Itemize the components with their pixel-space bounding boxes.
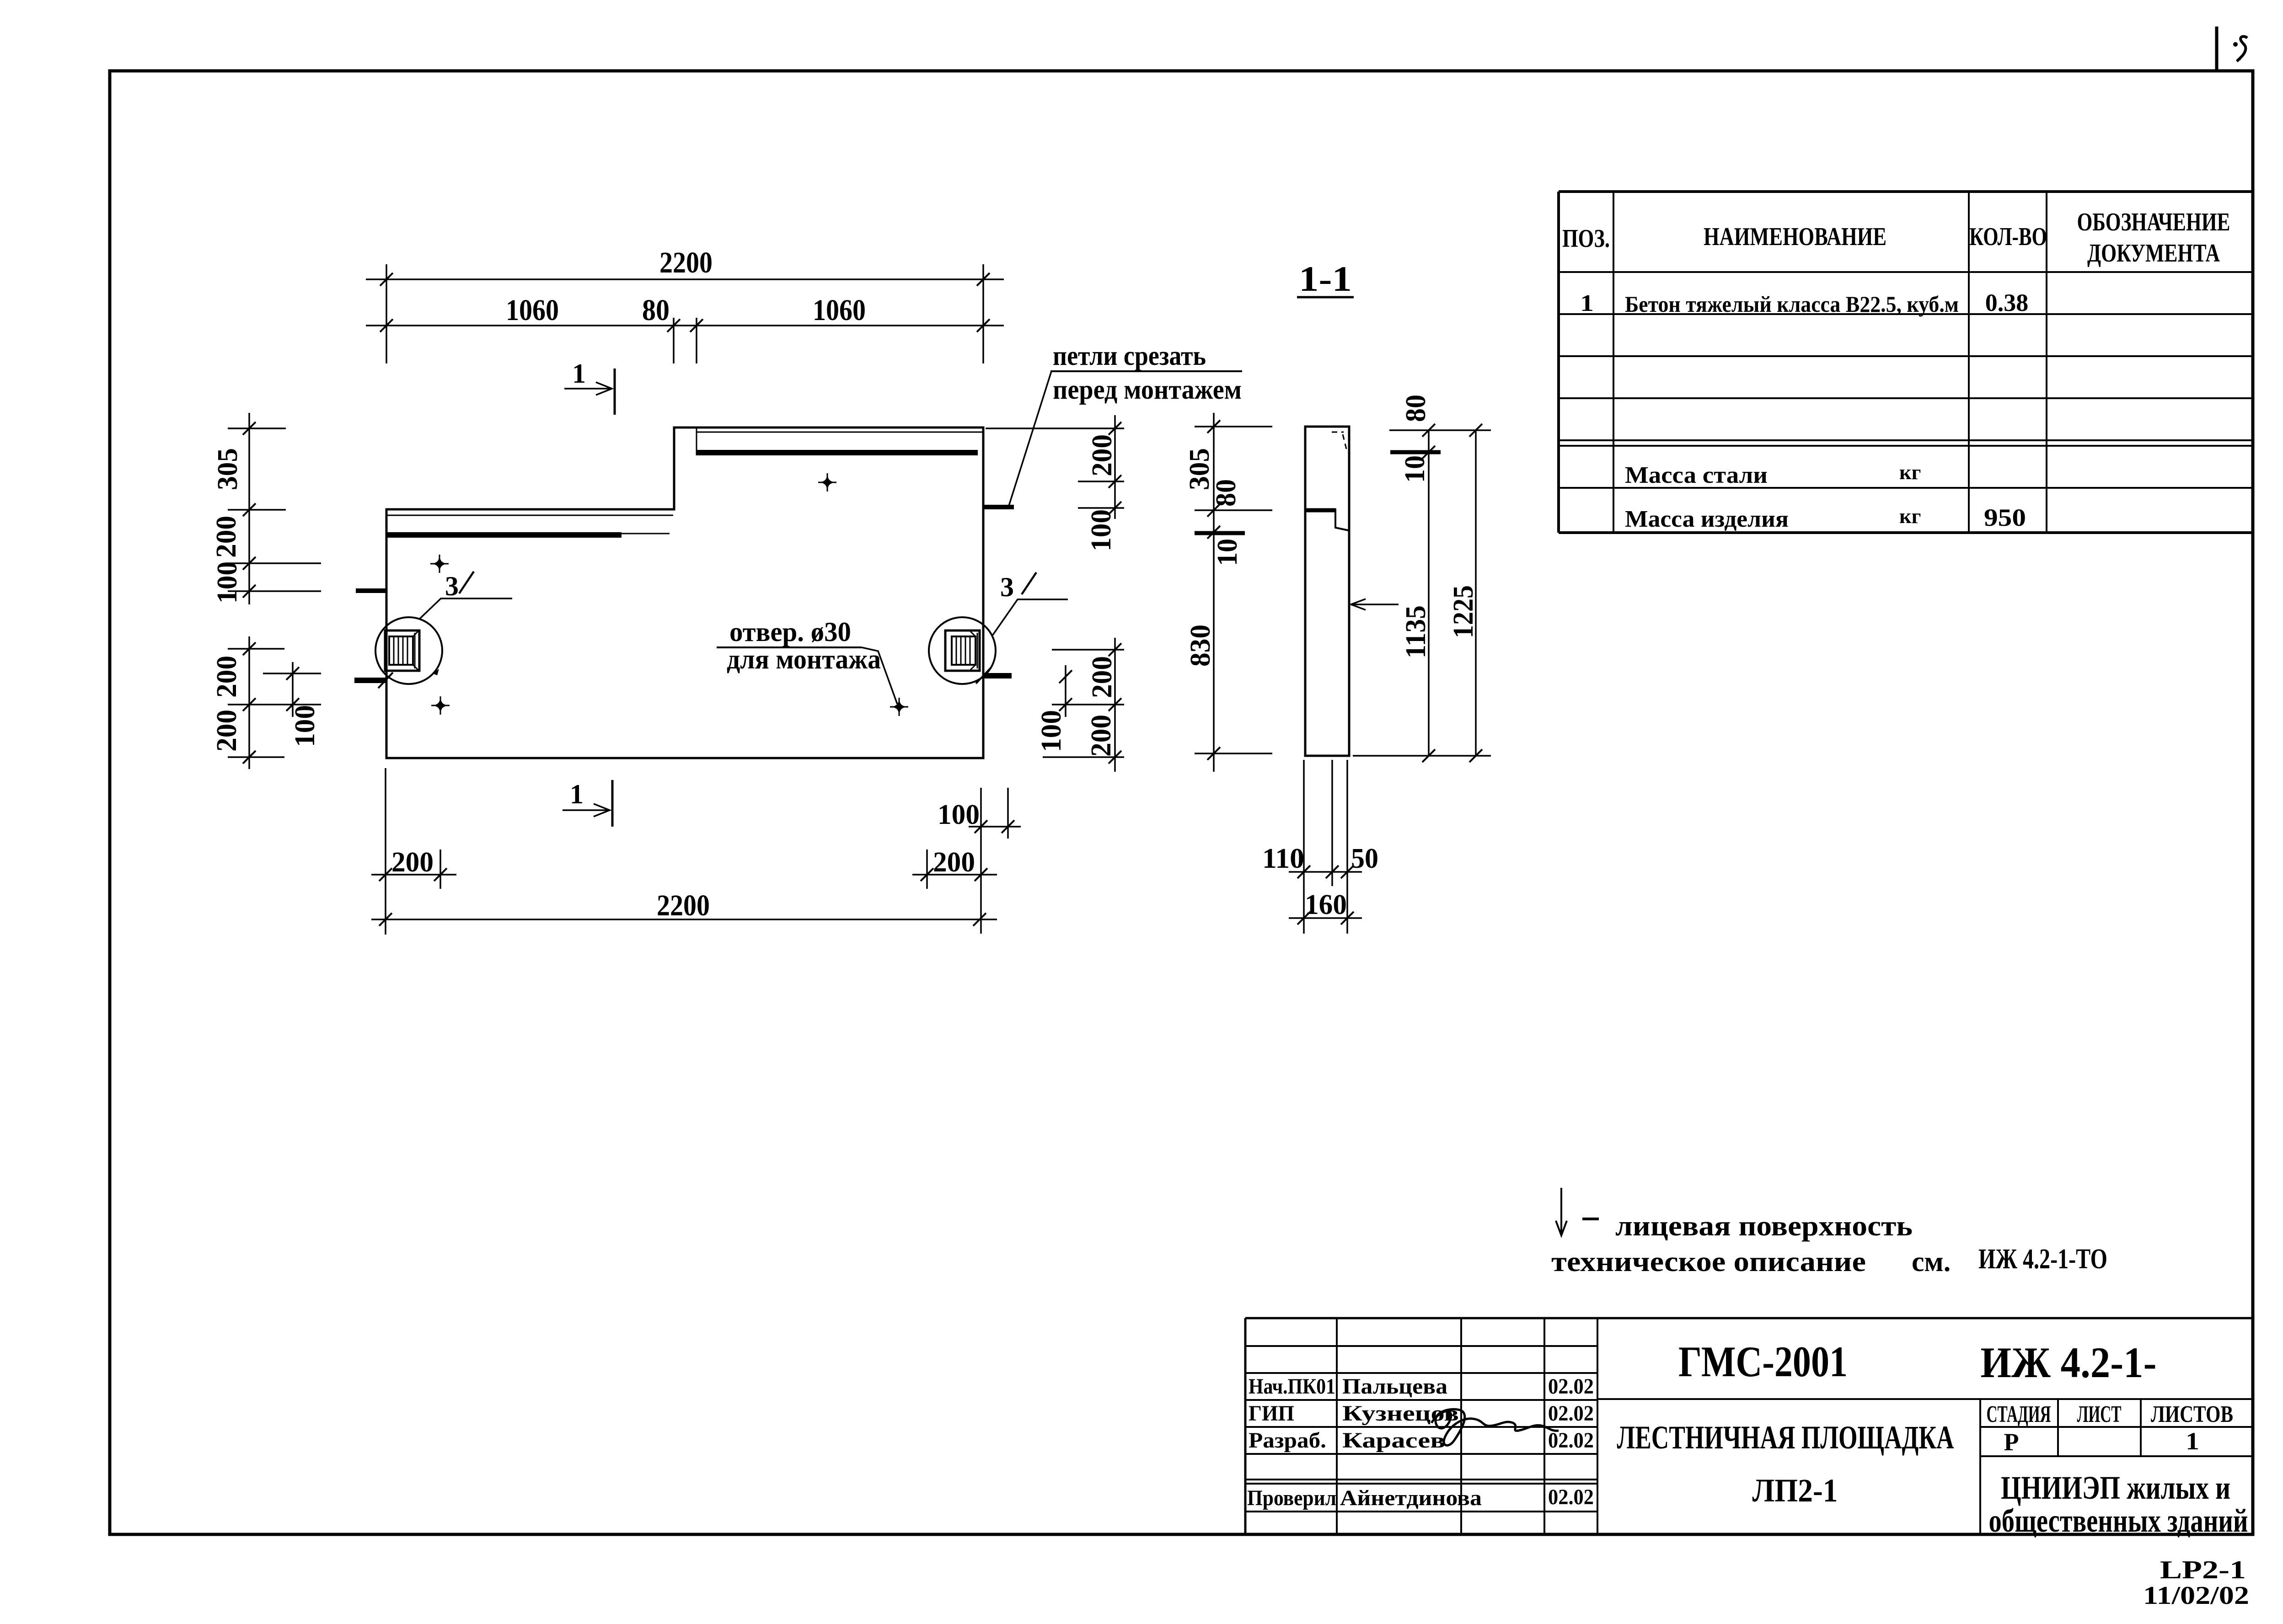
dim 1225 line [1475, 430, 1477, 756]
note hole d30: leader [862, 647, 897, 704]
svg-text:1: 1 [1580, 290, 1594, 316]
svg-text:ЛЕСТНИЧНАЯ ПЛОЩАДКА: ЛЕСТНИЧНАЯ ПЛОЩАДКА [1617, 1419, 1954, 1456]
svg-text:ИЖ 4.2-1-: ИЖ 4.2-1- [1981, 1338, 2157, 1387]
left sub-dim 100: line [292, 662, 294, 717]
plan left part inner thin line [387, 515, 673, 516]
svg-text:3: 3 [445, 571, 459, 601]
callout 3 right: leader [992, 599, 1068, 636]
svg-text:200: 200 [1087, 434, 1118, 476]
svg-text:200: 200 [1087, 656, 1118, 698]
section bottom extensions [1303, 760, 1305, 934]
svg-text:Пальцева: Пальцева [1342, 1374, 1447, 1399]
section left chain dim line [1213, 413, 1215, 772]
plan left part step nosing thick band [387, 532, 622, 538]
svg-text:1: 1 [2186, 1427, 2199, 1455]
plan right part nosing end cap [696, 428, 697, 455]
bottom 200 right extension [926, 849, 928, 889]
svg-text:1060: 1060 [506, 294, 559, 327]
svg-text:50: 50 [1351, 843, 1378, 874]
section mark 1 top: bar [614, 369, 616, 415]
svg-text:для монтажа: для монтажа [727, 644, 881, 674]
face surface legend arrow [1556, 1188, 1567, 1235]
svg-text:ГМС-2001: ГМС-2001 [1678, 1337, 1848, 1386]
callout 3 right: slash [1022, 572, 1036, 594]
svg-text:1-1: 1-1 [1299, 259, 1352, 299]
svg-text:LP2-1: LP2-1 [2160, 1556, 2246, 1584]
parts table grid [1559, 192, 2253, 533]
bottom dim 100: line [969, 826, 1021, 828]
svg-text:200: 200 [391, 847, 434, 878]
plan right part step nosing thick band [697, 450, 978, 455]
section left chain extensions [1195, 426, 1272, 427]
section 10 thick dash right [1390, 450, 1441, 454]
svg-text:петли срезать: петли срезать [1053, 341, 1206, 371]
svg-text:80: 80 [1211, 479, 1242, 507]
svg-text:КОЛ-ВО: КОЛ-ВО [1969, 223, 2047, 251]
bottom dim 200 right: line [912, 874, 997, 876]
right sub-dim 100: line [1065, 665, 1066, 717]
svg-text:950: 950 [1984, 504, 2026, 531]
loop dash upper-left [356, 588, 386, 593]
svg-text:кг: кг [1899, 504, 1921, 528]
dim 2200 top: line [366, 278, 1004, 280]
section internal thick step line [1306, 508, 1335, 513]
svg-text:80: 80 [1400, 395, 1431, 422]
loop dash upper-right [983, 505, 1014, 509]
bottom dim 200 left: line [371, 874, 456, 876]
svg-text:Разраб.: Разраб. [1249, 1428, 1326, 1453]
bottom 200 left extensions [385, 768, 386, 935]
svg-text:ПОЗ.: ПОЗ. [1562, 224, 1610, 253]
svg-text:110: 110 [1262, 843, 1304, 874]
small arrowhead at left circle edge [433, 669, 439, 675]
handwritten sheet number 5 [2233, 42, 2238, 47]
svg-text:200: 200 [211, 710, 242, 752]
svg-text:830: 830 [1185, 625, 1216, 667]
svg-text:ГИП: ГИП [1249, 1401, 1294, 1426]
signature squiggle Кузнецов [1431, 1409, 1559, 1445]
bottom dim 100 extensions [980, 788, 982, 934]
svg-text:02.02: 02.02 [1548, 1374, 1594, 1399]
dim ticks plan [243, 273, 1121, 926]
svg-text:СТАДИЯ: СТАДИЯ [1987, 1401, 2051, 1427]
section dim 160 line [1289, 917, 1362, 919]
svg-text:200: 200 [1086, 715, 1117, 757]
hole marker upper-right [818, 473, 836, 491]
svg-text:11/02/02: 11/02/02 [2143, 1581, 2249, 1610]
right lifting loop hatched square [945, 630, 980, 671]
right chain extensions [986, 427, 1124, 429]
dim 1135 line [1428, 430, 1430, 756]
hole marker lower-left [431, 696, 450, 715]
svg-text:10: 10 [1212, 539, 1243, 566]
svg-text:ЛИСТ: ЛИСТ [2077, 1401, 2122, 1427]
section mark 1 bottom: arrow [563, 804, 610, 817]
svg-text:Айнетдинова: Айнетдинова [1340, 1486, 1482, 1510]
left chain extensions [228, 427, 286, 429]
svg-text:100: 100 [289, 705, 321, 747]
svg-text:ДОКУМЕНТА: ДОКУМЕНТА [2087, 239, 2220, 267]
svg-text:02.02: 02.02 [1548, 1401, 1594, 1426]
section step notch [1335, 508, 1348, 530]
section outline [1305, 427, 1349, 756]
right chain: dim line lower [1114, 638, 1116, 772]
svg-text:Масса стали: Масса стали [1625, 462, 1768, 488]
svg-text:ЛП2-1: ЛП2-1 [1752, 1472, 1838, 1509]
bottom dim 2200: line [371, 919, 997, 920]
note loops: leader line [1009, 371, 1051, 506]
callout 3 left: slash [459, 572, 474, 593]
svg-text:НАИМЕНОВАНИЕ: НАИМЕНОВАНИЕ [1704, 223, 1886, 251]
svg-text:10: 10 [1399, 455, 1431, 483]
svg-text:200: 200 [211, 656, 242, 698]
svg-text:100: 100 [938, 799, 980, 830]
dim 80: extension left [673, 318, 675, 363]
dim 2200 top: extension left [386, 264, 387, 363]
svg-text:100: 100 [1036, 710, 1067, 752]
svg-text:ЛИСТОВ: ЛИСТОВ [2151, 1401, 2233, 1427]
svg-text:200: 200 [933, 847, 975, 878]
title block grid [1245, 1318, 2253, 1534]
svg-text:Масса изделия: Масса изделия [1625, 506, 1789, 532]
plan left part nosing thin continuation [622, 533, 670, 534]
svg-text:305: 305 [212, 448, 243, 490]
section 1-1 title underline [1297, 296, 1354, 299]
svg-text:Нач.ПК01: Нач.ПК01 [1249, 1374, 1335, 1399]
svg-text:1135: 1135 [1400, 605, 1431, 658]
section right top extension [1389, 429, 1491, 431]
svg-text:техническое описание: техническое описание [1551, 1246, 1866, 1277]
loop dash lower-left [354, 678, 386, 683]
svg-text:отвер. ø30: отвер. ø30 [729, 617, 851, 647]
svg-text:ЦНИИЭП жилых и: ЦНИИЭП жилых и [2001, 1469, 2230, 1506]
section hidden loop dashes [1332, 432, 1344, 433]
svg-text:02.02: 02.02 [1548, 1428, 1594, 1453]
svg-text:100: 100 [1086, 509, 1117, 551]
left chain: dim line upper [248, 413, 250, 604]
dim 2200 top: extension right [982, 264, 984, 363]
face surface legend dash [1582, 1218, 1599, 1220]
note hole d30: underline [717, 646, 862, 648]
svg-text:Проверил: Проверил [1247, 1486, 1336, 1510]
left chain: dim line lower [248, 636, 250, 769]
section dim 110-50 line [1289, 871, 1362, 873]
svg-text:100: 100 [212, 561, 243, 604]
svg-text:Бетон тяжелый класса В22.5, ку: Бетон тяжелый класса В22.5, куб.м [1625, 291, 1959, 317]
section dim ticks [1207, 420, 1482, 762]
right hole detail circle [929, 617, 996, 684]
plan view outline of landing slab [386, 427, 983, 758]
svg-text:3: 3 [1000, 572, 1014, 602]
section right bottom extension [1353, 755, 1491, 757]
svg-text:0.38: 0.38 [1985, 289, 2029, 316]
left lifting loop hatched square [385, 630, 419, 671]
loop dash lower-right tick [976, 668, 991, 684]
section 10 thick dash left [1195, 531, 1245, 535]
face surface arrow [1351, 599, 1399, 610]
svg-text:Карасев: Карасев [1342, 1428, 1445, 1453]
svg-text:кг: кг [1899, 460, 1921, 484]
right chain: dim line upper [1114, 415, 1116, 519]
plan right part inner thin line [697, 432, 982, 433]
loop dash lower-left tick [378, 673, 393, 688]
callout 3 left: leader [420, 598, 512, 619]
svg-text:лицевая поверхность: лицевая поверхность [1615, 1211, 1913, 1242]
svg-text:2200: 2200 [657, 889, 710, 922]
svg-text:1225: 1225 [1448, 585, 1479, 638]
section bottom ticks [1297, 865, 1354, 924]
note loops: underline [1050, 370, 1242, 372]
svg-text:ОБОЗНАЧЕНИЕ: ОБОЗНАЧЕНИЕ [2077, 208, 2230, 236]
svg-text:02.02: 02.02 [1548, 1485, 1594, 1509]
hole marker upper-left [430, 555, 449, 573]
svg-text:2200: 2200 [659, 246, 713, 279]
svg-text:160: 160 [1305, 889, 1347, 920]
loop dash lower-right [983, 673, 1012, 678]
svg-text:перед монтажем: перед монтажем [1053, 374, 1242, 405]
left hole detail circle [375, 617, 442, 684]
section mark 1 bottom: bar [611, 780, 614, 827]
svg-text:ИЖ 4.2-1-ТО: ИЖ 4.2-1-ТО [1978, 1244, 2107, 1275]
svg-text:1060: 1060 [813, 294, 866, 327]
dim 1060-80-1060: line [366, 325, 1004, 326]
section mark 1 top: arrow [564, 382, 612, 395]
svg-text:см.: см. [1912, 1246, 1951, 1277]
svg-text:200: 200 [211, 516, 242, 558]
svg-text:1: 1 [572, 358, 586, 389]
top margin tick [2215, 27, 2219, 71]
dim 80: extension right [696, 318, 697, 363]
svg-text:Р: Р [2004, 1428, 2019, 1456]
svg-text:1: 1 [570, 779, 584, 809]
hole marker lower-right [890, 698, 908, 716]
svg-text:общественных зданий: общественных зданий [1989, 1502, 2248, 1539]
svg-text:80: 80 [642, 294, 670, 327]
